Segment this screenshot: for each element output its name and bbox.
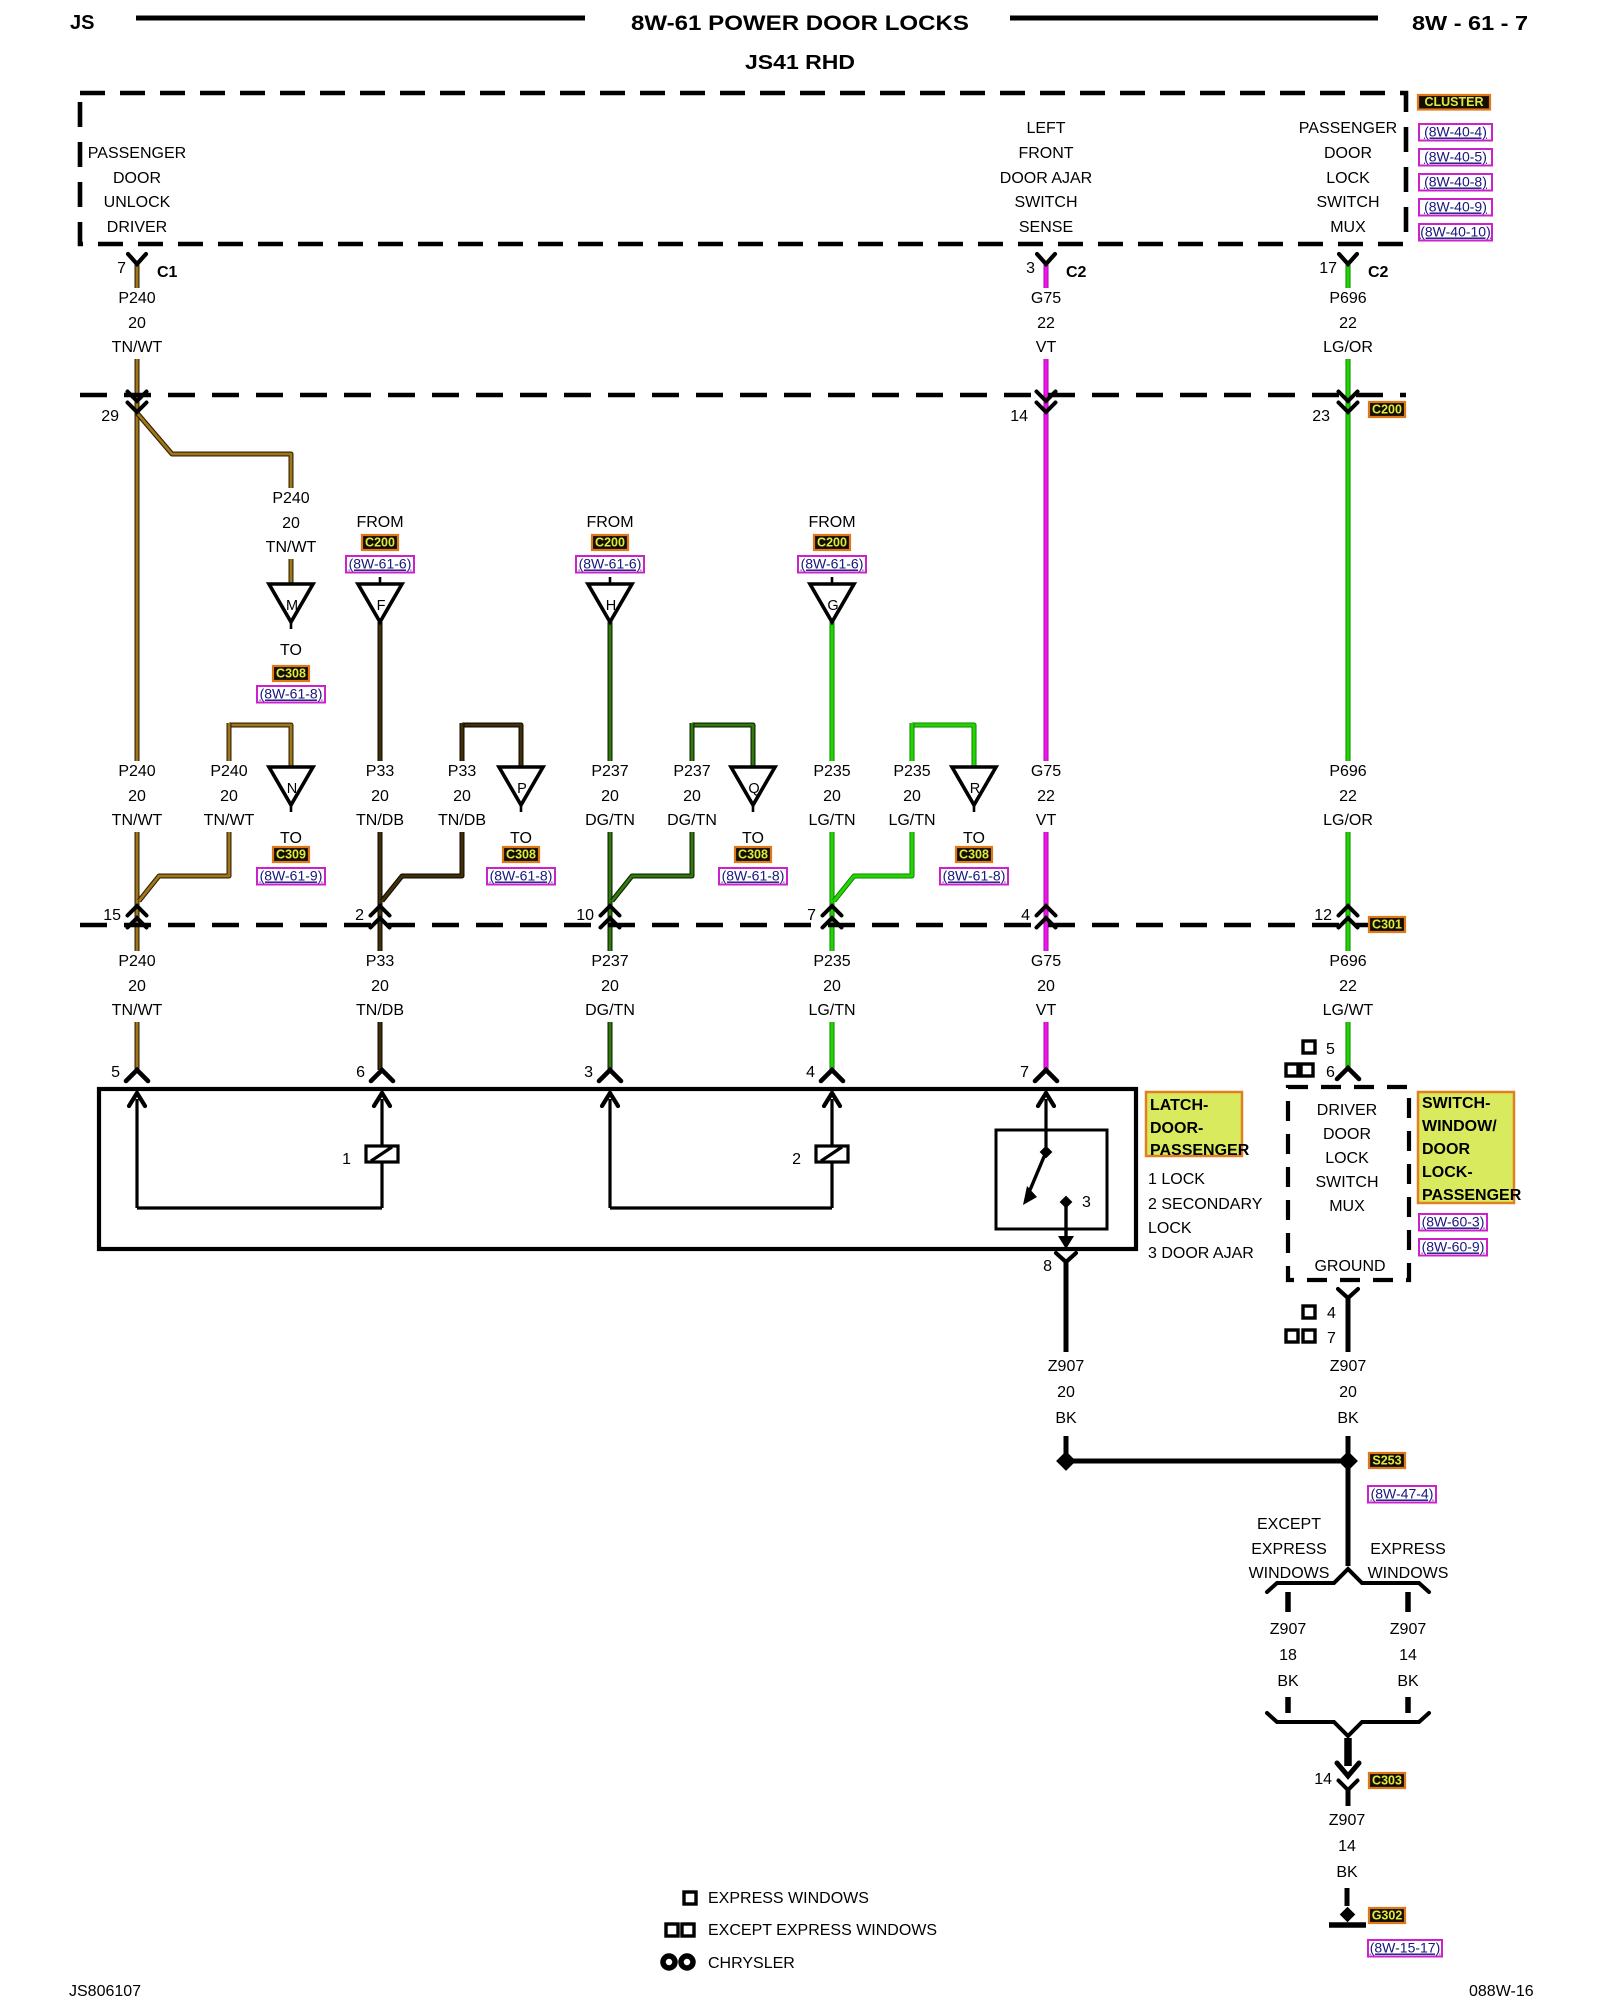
svg-text:20: 20 [1057,1384,1075,1401]
svg-text:F: F [377,598,386,614]
svg-text:LG/OR: LG/OR [1323,812,1373,829]
svg-text:(8W-40-4): (8W-40-4) [1424,124,1487,140]
svg-text:LG/TN: LG/TN [808,812,855,829]
legend chrysler [663,1955,795,1972]
wire label P33 20 TN/DB low [351,951,409,1022]
svg-text:P240: P240 [118,953,155,970]
svg-text:H: H [606,598,616,614]
brace split upper [1267,1569,1429,1592]
text EXCEPT EXPRESS WINDOWS [1249,1516,1330,1582]
wire G75 VT main [1044,262,1049,1070]
svg-text:LG/WT: LG/WT [1323,1002,1374,1019]
wire P240 jumper bar to triangle N [229,725,291,767]
svg-text:7: 7 [117,260,126,277]
door ajar switch sub-box [996,1130,1107,1229]
svg-text:P237: P237 [591,763,628,780]
svg-text:C1: C1 [157,264,178,281]
svg-text:(8W-61-8): (8W-61-8) [260,686,323,702]
svg-text:LEFT: LEFT [1026,120,1065,137]
svg-text:3 DOOR AJAR: 3 DOOR AJAR [1148,1245,1254,1262]
wire label P235 20 LG/TN mid-2 [883,761,941,832]
wire label G75 20 VT low [1017,951,1075,1022]
link 8W-40-5 [1419,149,1492,166]
header rule right [1010,16,1378,21]
svg-text:G75: G75 [1031,953,1061,970]
svg-text:TN/WT: TN/WT [204,812,255,829]
svg-text:088W-16: 088W-16 [1469,1983,1534,2000]
svg-text:TN/DB: TN/DB [356,812,404,829]
svg-text:LG/TN: LG/TN [808,1002,855,1019]
svg-text:22: 22 [1339,978,1357,995]
connector line C200 [80,393,1406,398]
svg-text:20: 20 [453,788,471,805]
cluster pin label PASSENGER DOOR UNLOCK DRIVER [88,145,186,236]
svg-text:P240: P240 [210,763,247,780]
svg-text:DRIVER: DRIVER [1317,1102,1377,1119]
wire label P696 22 LG/WT low [1319,951,1377,1022]
svg-text:14: 14 [1010,408,1028,425]
ground G302 symbol [1329,1907,1366,1925]
svg-text:(8W-15-17): (8W-15-17) [1370,1940,1441,1956]
svg-text:P235: P235 [813,953,850,970]
svg-text:10: 10 [576,907,594,924]
reference triangle H [588,577,632,622]
link 8W-15-17 [1368,1940,1442,1957]
svg-text:P: P [517,781,527,797]
svg-text:LOCK: LOCK [1325,1150,1369,1167]
svg-text:G75: G75 [1031,763,1061,780]
wire Z907 18 BK stub lower [1285,1697,1291,1713]
module box SWITCH-WINDOW/DOOR LOCK-PASSENGER [1288,1087,1409,1280]
tag S253 [1369,1453,1405,1468]
svg-text:DOOR: DOOR [1324,145,1372,162]
latch internal arrow pin 7 [1038,1093,1054,1147]
reference triangle R [952,767,996,812]
svg-text:6: 6 [1326,1064,1335,1081]
svg-text:LOCK: LOCK [1326,170,1370,187]
latch pin 3 [584,1064,621,1081]
link 8W-61-9 (N) [257,868,325,885]
wire label Z907 14 BK low [1329,1812,1366,1881]
svg-text:LG/TN: LG/TN [888,812,935,829]
svg-text:2: 2 [792,1151,801,1168]
wire P240 20 TN/WT main [135,262,140,1070]
svg-text:20: 20 [128,788,146,805]
svg-text:FROM: FROM [586,514,633,531]
svg-text:SWITCH: SWITCH [1315,1174,1378,1191]
svg-text:C200: C200 [1372,403,1402,417]
tag C309 (N) [273,847,309,862]
wire P235 jumper bar to triangle R [912,725,974,767]
link 8W-61-6 (H) [576,556,644,573]
svg-text:WINDOW/: WINDOW/ [1422,1118,1497,1135]
link 8W-40-4 [1419,124,1492,141]
wire label G75 22 VT top [1017,288,1075,359]
link 8W-61-8 (M) [257,686,325,703]
wire P33 second leg to C301 pin 2 [382,723,462,901]
svg-text:S253: S253 [1372,1454,1401,1468]
link 8W-60-3 [1419,1214,1487,1231]
connector line C301 [80,923,1406,928]
svg-text:14: 14 [1399,1647,1417,1664]
svg-text:(8W-40-5): (8W-40-5) [1424,149,1487,165]
wire label P237 20 DG/TN low [581,951,639,1022]
svg-text:1: 1 [342,1151,351,1168]
svg-text:12: 12 [1314,907,1332,924]
svg-text:LOCK: LOCK [1148,1220,1192,1237]
svg-text:20: 20 [601,788,619,805]
connector C200 pin 23 [1339,392,1358,413]
svg-text:TO: TO [963,830,985,847]
svg-text:JS41 RHD: JS41 RHD [745,52,855,74]
svg-text:TO: TO [280,642,302,659]
latch internal wiring pins 3-4 [610,1162,832,1208]
wire label P696 22 LG/OR mid [1319,761,1377,832]
wire label P240 20 TN/WT low [108,951,166,1022]
tag G302 [1369,1908,1405,1923]
wire P240 second leg to C301 pin 15 [139,723,229,901]
door ajar switch contact 3 [1023,1146,1091,1249]
svg-text:DOOR AJAR: DOOR AJAR [1000,170,1092,187]
wire Z907 right through splice to brace [1346,1436,1351,1566]
latch pin 8 [1043,1253,1076,1283]
svg-text:C2: C2 [1066,264,1087,281]
link 8W-60-9 [1419,1239,1487,1256]
svg-text:PASSENGER: PASSENGER [88,145,186,162]
tag C308 (Q) [735,847,771,862]
svg-text:R: R [970,781,980,797]
svg-text:20: 20 [371,788,389,805]
svg-text:20: 20 [683,788,701,805]
link 8W-40-8 [1419,174,1492,191]
svg-text:P33: P33 [366,953,395,970]
wire label G75 22 VT mid [1017,761,1075,832]
svg-text:17: 17 [1319,260,1337,277]
svg-text:VT: VT [1036,339,1057,356]
svg-text:(8W-61-6): (8W-61-6) [579,556,642,572]
svg-text:(8W-61-6): (8W-61-6) [349,556,412,572]
svg-text:MUX: MUX [1329,1198,1365,1215]
header rule left [136,16,585,21]
svg-text:7: 7 [1327,1330,1336,1347]
svg-text:P696: P696 [1329,290,1366,307]
svg-text:SENSE: SENSE [1019,219,1073,236]
reference triangle Q [731,767,775,812]
svg-text:(8W-60-9): (8W-60-9) [1422,1239,1485,1255]
component box LATCH-DOOR-PASSENGER [99,1089,1136,1249]
lock actuator 2 (switch element) [792,1146,848,1168]
svg-text:DOOR: DOOR [113,170,161,187]
svg-text:CHRYSLER: CHRYSLER [708,1955,795,1972]
latch internal arrow pin 3 [602,1093,618,1208]
module CLUSTER dashed box [80,93,1406,244]
wire label Z907 20 BK right [1319,1356,1377,1430]
svg-text:VT: VT [1036,812,1057,829]
latch pin 6 [356,1064,393,1081]
svg-text:C308: C308 [738,848,768,862]
tag CLUSTER [1418,95,1490,110]
wire Z907 left to splice [1064,1436,1069,1461]
connector C1 pin 7 [117,254,177,281]
svg-text:20: 20 [1037,978,1055,995]
svg-text:P240: P240 [118,290,155,307]
svg-text:3: 3 [584,1064,593,1081]
svg-text:FRONT: FRONT [1018,145,1073,162]
connector C303 pin 14 [1314,1763,1359,1806]
svg-text:3: 3 [1026,260,1035,277]
wire P696 LG/OR main [1346,262,1351,1068]
svg-text:SWITCH-: SWITCH- [1422,1095,1490,1112]
svg-text:(8W-61-8): (8W-61-8) [943,868,1006,884]
svg-text:JS: JS [70,12,94,34]
svg-text:SWITCH: SWITCH [1316,194,1379,211]
latch pin 4 [806,1064,843,1081]
svg-text:EXCEPT: EXCEPT [1257,1516,1321,1533]
tag C200 (G) [814,535,850,550]
svg-text:CLUSTER: CLUSTER [1424,95,1483,109]
svg-text:TO: TO [510,830,532,847]
svg-text:Z907: Z907 [1048,1358,1085,1375]
svg-text:DRIVER: DRIVER [107,219,167,236]
svg-text:14: 14 [1314,1771,1332,1788]
tag C200 (H) [592,535,628,550]
wire label P240 20 TN/WT branch [262,488,320,559]
svg-text:GROUND: GROUND [1314,1258,1385,1275]
wire P240 branch to triangle M [137,413,291,584]
svg-text:G: G [827,598,838,614]
tag C308 (R) [956,847,992,862]
svg-text:C301: C301 [1372,918,1402,932]
svg-text:4: 4 [806,1064,815,1081]
svg-text:TN/WT: TN/WT [112,339,163,356]
wire Z907 14 BK to C303 [1344,1738,1352,1766]
switch box pin 6 [1337,1068,1359,1079]
svg-text:20: 20 [823,978,841,995]
switch box label DRIVER DOOR LOCK SWITCH MUX [1315,1102,1378,1215]
highlight label SWITCH-WINDOW/DOOR LOCK-PASSENGER [1418,1092,1522,1204]
tag C308 (M) [273,666,309,681]
svg-text:P237: P237 [673,763,710,780]
text EXPRESS WINDOWS [1368,1541,1449,1582]
svg-text:Z907: Z907 [1390,1621,1427,1638]
latch internal arrow pin 4 [824,1093,840,1146]
wire P33 20 TN/DB main [378,622,383,1070]
svg-text:TN/DB: TN/DB [356,1002,404,1019]
svg-text:20: 20 [601,978,619,995]
reference triangle G [810,577,854,622]
tag C303 [1369,1773,1405,1788]
svg-text:P33: P33 [448,763,477,780]
svg-text:DOOR-: DOOR- [1150,1120,1203,1137]
svg-text:LOCK-: LOCK- [1422,1164,1473,1181]
svg-text:N: N [287,781,297,797]
svg-text:22: 22 [1339,788,1357,805]
svg-text:UNLOCK: UNLOCK [104,194,171,211]
wire label P33 20 TN/DB mid-2 [433,761,491,832]
svg-text:SWITCH: SWITCH [1014,194,1077,211]
link (8W-61-8) (R) [940,868,1008,885]
svg-text:P33: P33 [366,763,395,780]
reference triangle P [499,767,543,812]
tag C308 (P) [503,847,539,862]
svg-text:LATCH-: LATCH- [1150,1097,1208,1114]
wire P237 second leg to C301 pin 10 [612,723,692,901]
link (8W-61-8) (P) [487,868,555,885]
svg-text:P240: P240 [118,763,155,780]
svg-text:20: 20 [282,515,300,532]
wire Z907 14 BK stub upper [1405,1592,1411,1612]
svg-text:2: 2 [355,907,364,924]
svg-text:M: M [286,598,298,614]
svg-text:FROM: FROM [356,514,403,531]
svg-text:8W - 61 - 7: 8W - 61 - 7 [1412,13,1528,35]
squares marker pin 4 (express windows) [1303,1305,1336,1322]
reference triangle N [269,767,313,812]
link 8W-40-9 [1419,199,1492,216]
reference triangle M [269,584,313,629]
latch pin 7 [1020,1064,1057,1081]
svg-text:EXPRESS WINDOWS: EXPRESS WINDOWS [708,1890,869,1907]
svg-text:EXCEPT EXPRESS WINDOWS: EXCEPT EXPRESS WINDOWS [708,1922,937,1939]
svg-text:Z907: Z907 [1329,1812,1366,1829]
svg-text:DG/TN: DG/TN [667,812,717,829]
svg-text:20: 20 [823,788,841,805]
svg-text:BK: BK [1337,1410,1359,1427]
wire label Z907 18 BK [1270,1621,1307,1690]
svg-text:C308: C308 [959,848,989,862]
wire label P33 20 TN/DB mid-1 [351,761,409,832]
wire P235 20 LG/TN main [830,622,835,1070]
wire label P237 20 DG/TN mid-2 [663,761,721,832]
latch internal wiring pins 5-6 [137,1162,382,1208]
lock actuator 1 (switch element) [342,1146,398,1168]
svg-text:20: 20 [1339,1384,1357,1401]
connector C2 pin 17 [1319,254,1388,281]
tag C200 (F) [362,535,398,550]
wire Z907 from switch ground pin [1346,1302,1351,1352]
link 8W-40-10 [1419,224,1492,241]
svg-text:(8W-60-3): (8W-60-3) [1422,1214,1485,1230]
svg-text:P696: P696 [1329,763,1366,780]
svg-text:22: 22 [1037,315,1055,332]
cluster pin label LEFT FRONT DOOR AJAR SWITCH SENSE [1000,120,1092,236]
svg-text:PASSENGER: PASSENGER [1150,1142,1250,1159]
svg-text:(8W-47-4): (8W-47-4) [1371,1486,1434,1502]
tag C200 [1369,402,1405,417]
wire splice S253 horizontal [1066,1459,1347,1464]
svg-text:P696: P696 [1329,953,1366,970]
wire P237 20 DG/TN main [608,622,613,1070]
svg-text:18: 18 [1279,1647,1297,1664]
wire label P237 20 DG/TN mid-1 [581,761,639,832]
squares marker pin 6 (except express windows) [1286,1064,1335,1081]
svg-text:BK: BK [1336,1864,1358,1881]
connector C301 pin 2 [371,906,390,928]
svg-text:WINDOWS: WINDOWS [1368,1565,1449,1582]
svg-text:20: 20 [128,978,146,995]
svg-text:PASSENGER: PASSENGER [1299,120,1397,137]
wire label P240 20 TN/WT mid-1 [108,761,166,832]
svg-text:TO: TO [742,830,764,847]
svg-text:DOOR: DOOR [1422,1141,1470,1158]
connector C301 pin 15 [128,906,147,928]
svg-text:BK: BK [1397,1673,1419,1690]
svg-text:G302: G302 [1372,1909,1403,1923]
wire label P240 20 TN/WT top [108,288,166,359]
svg-text:C309: C309 [276,848,306,862]
wire label Z907 20 BK left [1037,1356,1095,1430]
svg-text:5: 5 [1326,1041,1335,1058]
svg-text:PASSENGER: PASSENGER [1422,1187,1522,1204]
latch pin 5 [111,1064,148,1081]
wire label P240 20 TN/WT mid-2 [200,761,258,832]
wire P235 second leg to C301 pin 7 [834,723,912,901]
svg-text:G75: G75 [1031,290,1061,307]
svg-text:29: 29 [101,408,119,425]
wire Z907 from latch pin 8 [1064,1283,1069,1352]
svg-text:JS806107: JS806107 [69,1983,141,2000]
svg-text:20: 20 [371,978,389,995]
svg-text:TN/WT: TN/WT [266,539,317,556]
svg-text:22: 22 [1339,315,1357,332]
svg-text:TN/DB: TN/DB [438,812,486,829]
svg-text:7: 7 [807,907,816,924]
svg-text:P235: P235 [893,763,930,780]
latch legend text [1148,1171,1263,1262]
link 8W-61-6 (G) [798,556,866,573]
svg-text:EXPRESS: EXPRESS [1370,1541,1446,1558]
connector C301 pin 7 [823,906,842,928]
svg-text:TN/WT: TN/WT [112,812,163,829]
highlight label LATCH-DOOR-PASSENGER [1146,1092,1250,1159]
switch box ground pin [1338,1289,1358,1319]
svg-text:TO: TO [280,830,302,847]
svg-text:FROM: FROM [808,514,855,531]
svg-text:Z907: Z907 [1330,1358,1367,1375]
svg-text:(8W-61-8): (8W-61-8) [722,868,785,884]
svg-text:8W-61 POWER DOOR LOCKS: 8W-61 POWER DOOR LOCKS [631,12,969,35]
connector C2 pin 3 [1026,254,1086,281]
svg-text:(8W-40-10): (8W-40-10) [1420,224,1491,240]
svg-text:EXPRESS: EXPRESS [1251,1541,1327,1558]
svg-text:C308: C308 [276,667,306,681]
svg-text:DG/TN: DG/TN [585,1002,635,1019]
svg-text:3: 3 [1082,1194,1091,1211]
svg-text:P240: P240 [272,490,309,507]
svg-text:7: 7 [1020,1064,1029,1081]
latch internal arrow pin 6 [374,1093,390,1146]
wire label Z907 14 BK [1390,1621,1427,1690]
svg-text:8: 8 [1043,1258,1052,1275]
wire label P235 20 LG/TN low [803,951,861,1022]
svg-text:BK: BK [1277,1673,1299,1690]
connector C301 pin 4 [1037,906,1056,928]
splice junction diamond left [1056,1451,1076,1471]
wire Z907 to ground G302 [1345,1888,1350,1906]
svg-text:WINDOWS: WINDOWS [1249,1565,1330,1582]
svg-text:15: 15 [103,907,121,924]
svg-text:2 SECONDARY: 2 SECONDARY [1148,1196,1263,1213]
legend except express windows [666,1922,937,1939]
svg-text:C308: C308 [506,848,536,862]
legend express windows [684,1890,869,1907]
svg-text:(8W-40-9): (8W-40-9) [1424,199,1487,215]
svg-text:C200: C200 [595,536,625,550]
svg-text:20: 20 [128,315,146,332]
svg-text:DOOR: DOOR [1323,1126,1371,1143]
link (8W-61-8) (Q) [719,868,787,885]
svg-text:Q: Q [748,781,759,797]
